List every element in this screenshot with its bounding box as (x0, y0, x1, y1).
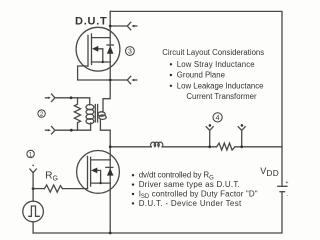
svg-text:Circuit Layout Considerations: Circuit Layout Considerations (162, 48, 264, 57)
transistor Q1 body arrow (92, 46, 104, 63)
node dot test point top (70, 96, 73, 99)
transistor Q2 gate bar (87, 156, 89, 188)
transformer T1 core (95, 105, 97, 123)
probe P3a chevron at drain (127, 22, 137, 30)
wire DUT gate-source loop (78, 66, 111, 80)
probe P2b chevron left bottom (45, 127, 55, 135)
wire drain probe stub (110, 25, 127, 27)
node 4 circled label (213, 113, 222, 122)
transformer T1 secondary winding (86, 105, 94, 110)
svg-text:Low Stray Inductance: Low Stray Inductance (177, 60, 255, 69)
svg-text:D.U.T: D.U.T (75, 15, 107, 27)
node dot source of D.U.T. (109, 79, 112, 82)
probe P4b Y right (238, 124, 245, 147)
resistor R2 mid horizontal (217, 143, 235, 150)
probe P3b chevron at source (127, 76, 137, 84)
transistor Q2 driver circle (77, 151, 120, 194)
svg-text:Current Transformer: Current Transformer (186, 92, 257, 101)
wire right rail lower and bottom rail (33, 192, 282, 233)
transistor Q1 gate bar (87, 36, 89, 67)
probe P2a chevron left top (45, 94, 55, 102)
transistor Q1 source stub (92, 61, 111, 63)
transformer T1 primary loops (98, 112, 106, 120)
transistor Q2 drain stub (91, 159, 111, 161)
pulse generator V1 (23, 201, 44, 222)
wire mid rail right segment (235, 146, 282, 148)
svg-text:D.U.T. - Device Under Test: D.U.T. - Device Under Test (139, 199, 242, 208)
wire secondary top lead (55, 98, 90, 105)
svg-text:Driver same type as D.U.T.: Driver same type as D.U.T. (139, 180, 240, 189)
wire pulse generator top lead (32, 189, 34, 202)
resistor RG (44, 185, 62, 192)
node dot test point bottom (70, 129, 73, 132)
wire source probe stub (110, 79, 127, 81)
svg-text:4: 4 (216, 115, 220, 122)
node dot driver source at bottom rail (109, 232, 112, 235)
transistor Q1 drain stub (92, 37, 111, 39)
transistor Q2 channel bar (90, 157, 92, 186)
wire main vertical: DUT drain through transformer primary jog (100, 11, 110, 147)
transistor Q1 D.U.T. circle (76, 27, 120, 71)
node dot pulse gen at Rg (32, 187, 35, 190)
transistor Q2 body arrow (91, 168, 102, 185)
wire mid rail left segment (110, 146, 151, 148)
transistor Q1 channel bar (91, 34, 93, 65)
node 3 circled label (125, 47, 134, 56)
wire top rail and right rail upper (110, 11, 282, 186)
inductor L1 (151, 142, 163, 147)
probe P1 Y at gate drive (30, 165, 36, 189)
node dot mid rail right probe (240, 145, 243, 148)
svg-text:Low Leakage Inductance: Low Leakage Inductance (177, 81, 264, 90)
svg-text:Ground Plane: Ground Plane (177, 71, 225, 80)
probe P4a Y left (206, 124, 213, 147)
node dot driver drain junction (109, 145, 112, 148)
node dot mid rail left probe (208, 145, 211, 148)
diode D1 body diode of D.U.T. (107, 45, 114, 54)
wire Rg left lead (33, 188, 44, 190)
transistor Q2 source stub (91, 182, 111, 184)
battery VDD symbol (278, 180, 289, 199)
diode D2 body diode of driver (106, 167, 114, 175)
svg-text:+: + (286, 180, 289, 186)
wire pulse generator bottom lead (32, 222, 34, 233)
wire driver drain-source vertical (109, 147, 111, 233)
node dot drain of D.U.T. (109, 25, 112, 28)
resistor R1 burden resistor vertical (74, 98, 80, 130)
svg-text:3: 3 (128, 49, 132, 56)
node 1 circled label (27, 150, 34, 158)
node 2 circled label (38, 110, 45, 118)
wire Rg right lead to driver gate (63, 188, 88, 190)
wire mid rail middle segment (162, 146, 216, 148)
wire secondary bottom lead (55, 123, 91, 130)
